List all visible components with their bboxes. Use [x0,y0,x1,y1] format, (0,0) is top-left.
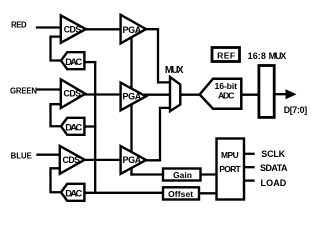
svg-text:MUX: MUX [269,51,287,61]
op-amp PGA2 [121,83,146,111]
16:8 MUX bar [259,66,274,118]
wire MUX to ADC [180,94,201,96]
svg-text:MPU: MPU [221,150,239,160]
wire GREEN input [38,88,61,90]
wire CDS1 to DAC1 [51,37,62,61]
svg-text:MUX: MUX [165,65,184,76]
MPU PORT box [217,139,245,200]
wire RED input [37,26,61,28]
DAC1 [61,52,84,69]
svg-text:REF: REF [217,51,235,61]
svg-text:GREEN: GREEN [10,86,37,95]
DAC3 [61,184,84,201]
D[7:0] arrow head [286,89,297,99]
wire PGA2 to MUX [145,94,170,96]
wire LOAD stub [245,179,254,181]
Offset box [163,187,199,199]
wire ADC to 16:8 MUX bar [242,94,258,96]
op-amp CDS3 [60,146,85,174]
wire CDS3 to PGA3 [84,159,121,161]
ADC pentagon [200,79,242,109]
svg-text:D[7:0]: D[7:0] [284,105,308,115]
wire BLUE input [38,154,60,156]
svg-text:PGA: PGA [123,155,142,165]
op-amp PGA3 [121,146,146,174]
wire SCLK stub [245,153,254,155]
svg-text:BLUE: BLUE [11,151,32,160]
op-amp CDS1 [61,15,86,42]
wire Offset to MPU PORT [199,192,217,194]
svg-text:DAC: DAC [65,122,82,132]
svg-text:DAC: DAC [65,188,82,198]
svg-text:ADC: ADC [218,90,235,100]
svg-text:RED: RED [11,21,27,30]
wire gain bus to Gain box [132,173,164,175]
svg-text:CDS: CDS [64,88,82,98]
wire CDS2 to PGA2 [85,93,121,95]
svg-text:CDS: CDS [64,24,82,34]
svg-text:Offset: Offset [168,189,193,199]
wire SDATA stub [245,166,254,168]
svg-text:PORT: PORT [219,164,241,174]
wire PGA3 to MUX [145,108,170,160]
wire DAC1 output stub [85,61,96,63]
svg-text:CDS: CDS [63,155,81,165]
svg-text:LOAD: LOAD [261,178,287,188]
svg-text:PGA: PGA [123,92,142,102]
wire Gain to MPU PORT [201,173,217,175]
wire CDS2 to DAC2 [51,104,62,126]
svg-text:SDATA: SDATA [260,163,288,173]
wire gain bus vertical [130,37,132,174]
svg-text:SCLK: SCLK [261,149,285,159]
wire DAC2 output stub [85,125,96,127]
wire PGA1 to MUX [145,29,170,82]
MUX trapezoid U1 [170,77,180,111]
svg-text:Gain: Gain [173,170,192,180]
op-amp PGA1 [121,15,146,44]
op-amp CDS2 [61,79,86,108]
wire DAC feedback bus vertical [94,62,96,193]
Gain box [163,169,201,181]
wire D[7:0] arrow shaft [275,93,287,95]
wire CDS3 to DAC3 [51,168,62,192]
DAC2 [61,118,84,135]
svg-text:DAC: DAC [65,57,82,67]
REF box [212,48,240,62]
wire DAC3 / Offset line [85,192,164,194]
svg-text:PGA: PGA [123,25,142,35]
wire CDS1 to PGA1 [85,28,121,30]
svg-text:16:8: 16:8 [248,51,266,61]
